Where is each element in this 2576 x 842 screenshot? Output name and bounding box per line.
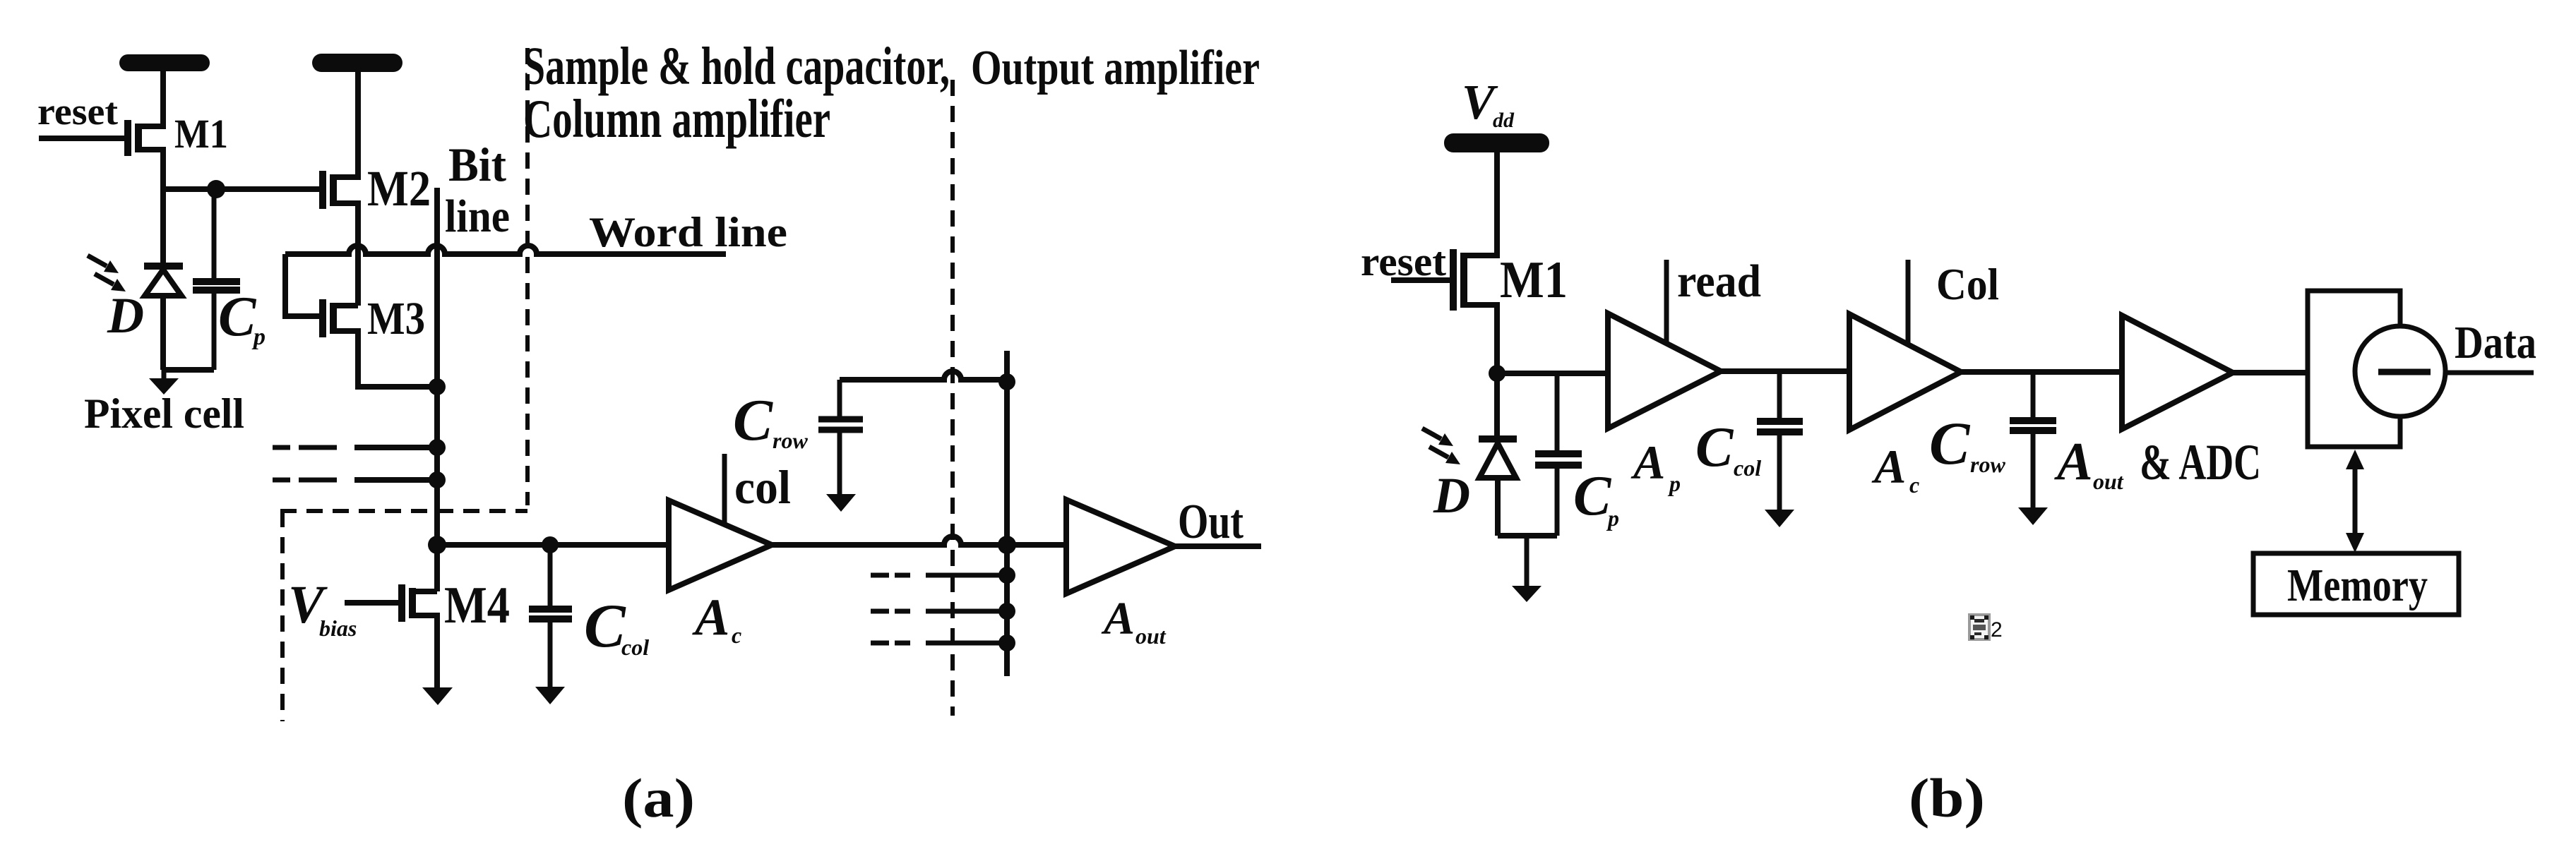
svg-text:Word line: Word line [589, 209, 787, 255]
dashed boundary line 1 (pixel cell / column) [525, 48, 530, 505]
svg-text:C: C [1573, 465, 1612, 527]
capacitor Cp (b) [1535, 373, 1582, 536]
svg-text:read: read [1677, 255, 1761, 307]
svg-text:& ADC: & ADC [2140, 434, 2261, 491]
wire Out [1175, 543, 1261, 549]
double-headed arrow box to memory [2346, 450, 2364, 553]
svg-text:reset: reset [1361, 239, 1447, 284]
power rail VDD bar 2 (a) [312, 54, 402, 72]
ground pixel cell (a) [149, 370, 179, 395]
power rail VDD bar (b) [1444, 133, 1549, 152]
svg-text:bias: bias [319, 615, 357, 641]
svg-text:Sample & hold capacitor,: Sample & hold capacitor, [523, 37, 950, 96]
svg-text:row: row [773, 428, 808, 453]
wire pixel bottom U (b) [1498, 533, 1557, 539]
capacitor C_col (b) [1757, 372, 1803, 510]
svg-text:D: D [107, 287, 144, 344]
svg-text:M2: M2 [367, 160, 431, 217]
svg-text:A: A [2054, 432, 2093, 491]
op-amp A_out output amplifier (a) [1066, 500, 1175, 594]
node bus main row [998, 536, 1016, 554]
svg-text:Memory: Memory [2287, 560, 2428, 611]
svg-text:A: A [1101, 593, 1135, 644]
other-row taps on bus [871, 575, 1007, 643]
svg-text:line: line [445, 191, 510, 242]
ground C_col (a) [535, 687, 565, 704]
wire A_out to ADC box [2233, 370, 2308, 375]
svg-text:col: col [734, 460, 791, 514]
node bit line row tap 2 [429, 471, 446, 488]
capacitor C_row (a) top wire with hop [840, 371, 1007, 380]
node main row / bit line junction [428, 536, 446, 554]
wire VDD to M1 (b) [1494, 152, 1500, 254]
photodiode D (b) [1479, 373, 1517, 536]
node C_row to bus [998, 373, 1015, 390]
wire output bus vertical [1004, 351, 1010, 676]
svg-text:p: p [1606, 505, 1619, 531]
transistor M1 (b) [1391, 152, 1497, 373]
svg-text:2: 2 [1991, 618, 2003, 642]
svg-text:C: C [584, 592, 626, 661]
svg-text:Col: Col [1936, 259, 1999, 309]
wire node to A_p [1497, 371, 1608, 376]
current source circle with minus [2355, 326, 2445, 416]
svg-text:p: p [1667, 471, 1681, 496]
op-amp A_p pixel amplifier (b) [1608, 313, 1721, 428]
svg-text:M4: M4 [444, 577, 510, 634]
capacitor C_row (b) [2010, 372, 2056, 508]
node bus tap 3 [998, 634, 1015, 651]
wire Col select [1906, 260, 1911, 344]
node bit line / M3 source junction [429, 378, 446, 395]
svg-text:C: C [733, 387, 773, 453]
ground C_col (b) [1765, 510, 1794, 527]
op-amp A_out output amplifier (b) [2122, 315, 2233, 429]
other-row dash-dot taps on bit line [273, 447, 437, 480]
svg-text:c: c [1909, 472, 1919, 498]
svg-text:out: out [2093, 469, 2124, 494]
svg-text:Data: Data [2455, 317, 2536, 368]
ground C_row (a) [826, 494, 856, 512]
ADC output block box [2308, 291, 2400, 447]
transistor M1 (a) [39, 73, 163, 190]
svg-text:Output amplifier: Output amplifier [971, 41, 1260, 95]
svg-text:Column amplifier: Column amplifier [523, 88, 830, 149]
svg-text:p: p [251, 324, 266, 350]
node A junction dot (M1 source / diode / Cp / M2 gate) [207, 180, 225, 198]
transistor M4 (a) [345, 584, 437, 688]
svg-text:C: C [1695, 416, 1734, 479]
wire A_c to A_out [1961, 369, 2122, 375]
wire pixel bottom U [163, 367, 214, 373]
svg-text:(b): (b) [1909, 767, 1985, 829]
wire word line with hops [285, 246, 726, 254]
wire node to M2 gate [163, 186, 320, 192]
svg-text:reset: reset [37, 90, 118, 133]
wire main row to A_c [437, 542, 669, 548]
wire bit line vertical [434, 188, 440, 591]
svg-text:M1: M1 [1500, 251, 1568, 309]
svg-text:col: col [1734, 455, 1761, 481]
figure marker icon 图 [1969, 615, 1989, 639]
svg-text:D: D [1433, 467, 1470, 524]
node bus tap 1 [998, 567, 1015, 584]
capacitor Cp (a) [193, 189, 240, 370]
svg-text:Out: Out [1178, 495, 1244, 549]
node C_col tap [542, 536, 559, 553]
power rail VDD bar left (a) [119, 54, 210, 71]
wire A_p to A_c [1721, 368, 1849, 374]
wire Data out [2445, 371, 2534, 375]
node bus tap 2 [998, 603, 1015, 620]
wire VDD1 to M1 drain [160, 71, 166, 124]
wire A_c output row with hop over dashed line [772, 536, 1066, 545]
op-amp A_c column amplifier (a) [669, 500, 772, 590]
capacitor C_col (a) [529, 545, 572, 687]
svg-text:C: C [218, 286, 257, 348]
svg-text:Bit: Bit [448, 138, 506, 191]
op-amp A_c column amplifier (b) [1849, 314, 1961, 430]
ground M4 [422, 687, 453, 705]
light arrows into D (a) [88, 255, 126, 291]
svg-text:dd: dd [1493, 109, 1515, 132]
wire col select line [722, 454, 727, 525]
photodiode D (a) [144, 190, 183, 370]
transistor M2 (a) [323, 72, 358, 306]
svg-text:C: C [1929, 409, 1971, 477]
Memory box [2253, 553, 2459, 615]
svg-text:Pixel cell: Pixel cell [84, 390, 244, 437]
svg-text:A: A [692, 589, 729, 646]
transistor M3 (a) with gate loop to word line [285, 254, 437, 387]
capacitor C_row (a) [818, 380, 863, 495]
svg-text:A: A [1871, 440, 1906, 493]
svg-text:c: c [732, 623, 741, 648]
ground pixel (b) [1512, 536, 1542, 602]
ground C_row (b) [2018, 507, 2048, 525]
svg-text:col: col [621, 634, 649, 660]
svg-text:row: row [1970, 452, 2005, 477]
svg-text:A: A [1630, 435, 1665, 489]
node bit line row tap 1 [429, 439, 446, 456]
dashed boundary corner horizontal [280, 509, 527, 513]
dashed boundary line 2 (column amp / output amp) [950, 80, 955, 716]
svg-text:M3: M3 [367, 293, 425, 344]
svg-text:(a): (a) [622, 767, 695, 829]
light arrows into D (b) [1422, 428, 1460, 464]
svg-text:M1: M1 [174, 111, 228, 157]
node pixel (b) [1489, 365, 1505, 382]
wire read select [1664, 260, 1669, 343]
dashed boundary corner vertical [280, 511, 285, 721]
svg-text:out: out [1135, 623, 1167, 649]
